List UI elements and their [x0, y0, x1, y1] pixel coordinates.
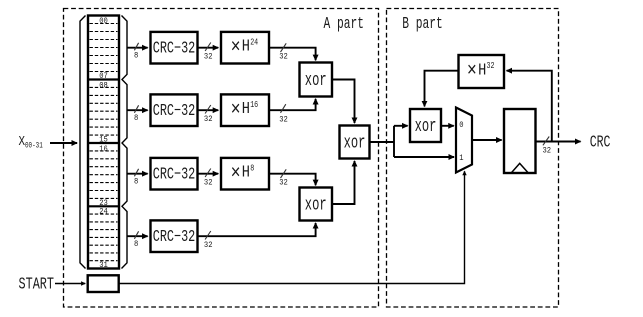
register left bracket: [80, 16, 86, 269]
svg-text:H: H: [242, 99, 250, 118]
svg-text:×: ×: [467, 60, 477, 83]
svg-text:32: 32: [279, 178, 288, 188]
svg-text:16: 16: [99, 145, 108, 154]
svg-text:START: START: [19, 274, 55, 293]
svg-text:00: 00: [99, 17, 108, 26]
clock triangle: [512, 163, 529, 172]
svg-text:H: H: [242, 37, 250, 56]
svg-text:23: 23: [99, 199, 108, 208]
svg-text:8: 8: [134, 177, 138, 187]
svg-text:31: 31: [99, 261, 108, 270]
block: CRC-32 (2): [151, 94, 198, 126]
svg-text:8: 8: [250, 164, 254, 174]
block: CRC-32 (1): [151, 32, 198, 64]
svg-text:xor: xor: [305, 71, 327, 91]
xor gate B: [410, 109, 441, 142]
wire: xor A1 output to xor A3 top: [332, 80, 355, 124]
svg-text:CRC−32: CRC−32: [153, 164, 196, 183]
svg-text:32: 32: [543, 145, 552, 155]
input label X00-31: [19, 135, 43, 151]
wire: A part output into B part (split node): [370, 126, 395, 157]
block: CRC-32 (4): [151, 220, 198, 252]
output register (flip-flop): [504, 109, 536, 173]
svg-text:08: 08: [99, 81, 108, 90]
dashed enclosure: B part: [387, 9, 559, 308]
wire: ×H16 output to xor A1 bottom: [269, 99, 316, 124]
svg-text:24: 24: [99, 208, 108, 217]
svg-text:A part: A part: [324, 14, 365, 33]
svg-text:32: 32: [279, 114, 288, 124]
wire: register byte 3 to CRC-32 (3): [127, 169, 148, 187]
svg-text:CRC−32: CRC−32: [153, 38, 196, 57]
svg-text:CRC−32: CRC−32: [153, 227, 196, 246]
svg-text:xor: xor: [344, 133, 366, 153]
svg-text:H: H: [242, 163, 250, 182]
register: 32-bit input buffer: [88, 16, 119, 269]
xor gate A2: [300, 188, 333, 221]
svg-text:×: ×: [231, 37, 241, 60]
start delay register: [88, 275, 119, 292]
svg-text:32: 32: [204, 178, 213, 188]
svg-text:8: 8: [134, 113, 138, 123]
wire: CRC-32 (1) to multiplier H^24: [198, 43, 219, 62]
svg-text:24: 24: [250, 38, 258, 48]
svg-text:8: 8: [134, 239, 138, 249]
wire: start select to mux: [119, 171, 465, 283]
wire: feedback from output up to ×H32: [507, 71, 552, 142]
wire: ×H8 output to xor A2 top: [269, 169, 316, 187]
svg-text:16: 16: [250, 100, 258, 110]
wire: xor B output to mux input 0: [441, 125, 454, 127]
block: multiplier ×H^16: [221, 94, 269, 126]
block: multiplier ×H^32: [459, 55, 505, 88]
svg-text:32: 32: [279, 52, 288, 62]
svg-text:32: 32: [487, 61, 495, 71]
svg-text:00-31: 00-31: [25, 141, 43, 151]
wire: register byte 1 to CRC-32 (1): [127, 43, 148, 61]
multiplexer: [456, 108, 472, 173]
wire: upper branch to xor B: [394, 125, 408, 127]
svg-text:×: ×: [231, 99, 241, 122]
xor gate A1: [300, 63, 333, 97]
svg-text:07: 07: [99, 72, 108, 81]
dashed enclosure: A part: [64, 9, 379, 308]
svg-text:0: 0: [459, 121, 463, 130]
wire: CRC-32 (3) to multiplier H^8: [198, 169, 219, 188]
svg-text:×: ×: [231, 163, 241, 186]
svg-text:B part: B part: [402, 14, 443, 33]
svg-text:15: 15: [99, 136, 108, 145]
wire: CRC-32 (4) output to xor A2 bottom: [198, 223, 316, 250]
svg-text:CRC−32: CRC−32: [153, 101, 196, 120]
wire: CRC-32 (2) to multiplier H^16: [198, 105, 219, 124]
register right bracket (byte group braces): [122, 16, 128, 269]
svg-text:xor: xor: [305, 195, 327, 215]
wire: lower branch to mux input 1: [394, 156, 454, 158]
wire: register byte 2 to CRC-32 (2): [127, 105, 148, 123]
svg-text:32: 32: [204, 52, 213, 62]
block: CRC-32 (3): [151, 158, 198, 190]
wire: ×H32 output down into xor B: [425, 71, 459, 107]
wire: START into delay register: [55, 283, 85, 285]
wire: ×H24 output to xor A1 top: [269, 43, 316, 61]
wire: register byte 4 to CRC-32 (4): [127, 231, 148, 249]
svg-text:H: H: [478, 60, 486, 79]
wire: xor A2 output to xor A3 bottom: [332, 161, 355, 204]
svg-text:xor: xor: [415, 117, 437, 137]
block: multiplier ×H^8: [221, 158, 269, 190]
xor gate A3 (combiner): [340, 126, 370, 159]
svg-text:CRC: CRC: [590, 132, 611, 151]
svg-text:32: 32: [204, 240, 213, 250]
svg-text:32: 32: [204, 114, 213, 124]
block: multiplier ×H^24: [221, 32, 269, 64]
wire: register output to CRC: [536, 137, 581, 156]
svg-text:1: 1: [459, 154, 463, 163]
wire: X input into register: [50, 142, 77, 144]
wire: mux output to output register: [472, 139, 502, 141]
svg-text:8: 8: [134, 51, 138, 61]
